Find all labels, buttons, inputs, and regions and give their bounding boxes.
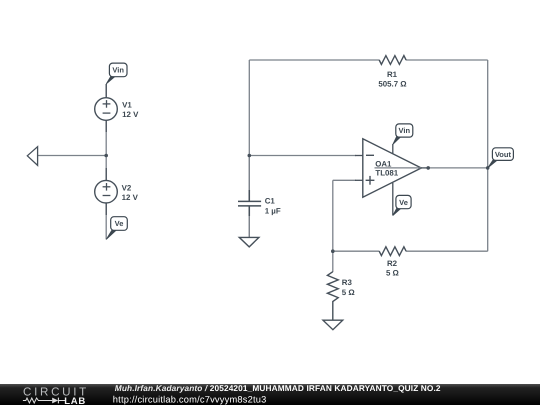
op-amp OA1 <box>355 139 429 197</box>
svg-text:5 Ω: 5 Ω <box>342 288 355 297</box>
svg-text:Vin: Vin <box>399 126 411 135</box>
resistor R3 <box>327 272 338 309</box>
CircuitLab logo <box>23 386 89 405</box>
svg-text:R2: R2 <box>387 259 398 268</box>
voltage source V1 <box>95 98 139 121</box>
wire: inverting input <box>249 155 356 157</box>
wire: bottom rail (R2 to right rail) <box>406 250 488 252</box>
wire: C1 bottom to ground <box>248 206 250 237</box>
wire: left rail down to C1 <box>248 60 250 201</box>
voltage source V2 <box>95 180 139 203</box>
wire: R3 top lead <box>332 251 334 272</box>
wire: output to right rail <box>428 167 488 169</box>
node flag Vin (left) <box>106 63 127 84</box>
svg-text:Ve: Ve <box>115 219 124 228</box>
svg-text:V1: V1 <box>122 101 132 110</box>
svg-text:1 µF: 1 µF <box>265 207 281 216</box>
svg-text:505.7 Ω: 505.7 Ω <box>378 79 406 88</box>
resistor R1 <box>379 56 406 65</box>
svg-text:Vout: Vout <box>495 150 512 159</box>
svg-text:5 Ω: 5 Ω <box>386 269 399 278</box>
wire: horizontal from left arrow port to junction <box>38 155 107 157</box>
wire: non-inverting input <box>333 179 356 181</box>
op-amp V- power pin <box>392 183 394 216</box>
svg-text:V2: V2 <box>122 184 132 193</box>
ground (below C1) <box>239 216 259 247</box>
svg-text:Ve: Ve <box>399 198 408 207</box>
junction node (left branch / port wire) <box>104 154 108 158</box>
op-amp V+ power pin <box>392 144 394 154</box>
svg-text:LAB: LAB <box>64 396 86 405</box>
node flag Vin (op-amp V+) <box>393 124 413 144</box>
svg-text:Muh.Irfan.Kadaryanto / 2052420: Muh.Irfan.Kadaryanto / 20524201_MUHAMMAD… <box>115 383 441 393</box>
node flag Ve (op-amp V-) <box>393 195 411 215</box>
junction node (minus input tee on left rail) <box>248 154 252 158</box>
node flag Ve (left) <box>106 217 127 240</box>
junction node (op-amp output) <box>426 166 430 170</box>
dark pin stubs of V1/V2 <box>105 84 107 215</box>
svg-text:OA1: OA1 <box>375 159 392 168</box>
svg-text:R1: R1 <box>387 70 398 79</box>
svg-text:12 V: 12 V <box>122 193 139 202</box>
wire: C1 vertical below minus-input junction <box>248 156 250 202</box>
junction node (R2/R3 tee) <box>331 249 335 253</box>
resistor R2 <box>379 247 406 256</box>
wire: bottom rail (junction to R2) <box>333 250 380 252</box>
junction node (Vout on right rail) <box>486 166 490 170</box>
capacitor C1 <box>238 190 261 216</box>
wire: right rail down to output and R2 <box>487 60 489 251</box>
svg-text:12 V: 12 V <box>122 110 139 119</box>
ground (below R3) <box>323 309 343 330</box>
port arrow (left terminal) <box>27 147 37 166</box>
svg-text:http://circuitlab.com/c7vvyym8: http://circuitlab.com/c7vvyym8s2tu3 <box>113 394 267 404</box>
wire: top rail (R1 to right corner) <box>406 59 488 61</box>
svg-text:TL081: TL081 <box>375 169 398 178</box>
svg-text:Vin: Vin <box>112 66 124 75</box>
wire: vertical from + input to R2/R3 junction <box>332 180 334 251</box>
svg-text:C1: C1 <box>265 197 276 206</box>
wire: top rail (left segment to R1) <box>249 59 379 61</box>
wire: vertical chain through V1 and V2 <box>105 84 107 239</box>
svg-text:R3: R3 <box>342 278 353 287</box>
node flag Vout <box>488 148 514 168</box>
